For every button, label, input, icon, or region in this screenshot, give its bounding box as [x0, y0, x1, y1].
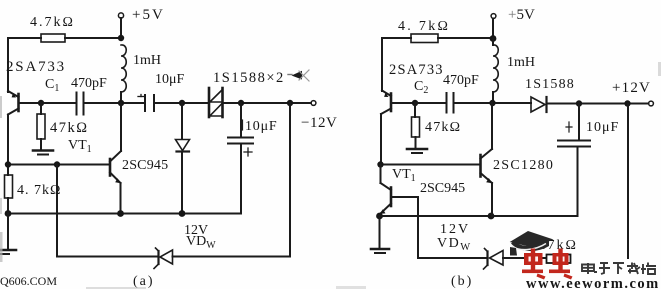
svg-text:1S1588: 1S1588 — [525, 77, 575, 92]
svg-text:C2: C2 — [414, 79, 428, 96]
svg-text:12V: 12V — [440, 222, 470, 237]
svg-text:+5V: +5V — [508, 7, 535, 23]
svg-text:+5V: +5V — [132, 7, 165, 23]
base wire 2SC1280 — [381, 164, 480, 166]
svg-text:−12V: −12V — [301, 115, 337, 131]
wire resistor to +5V node — [65, 37, 121, 39]
svg-text:C1: C1 — [45, 77, 59, 94]
svg-text:Q606.COM: Q606.COM — [0, 274, 57, 288]
svg-text:4. 7kΩ: 4. 7kΩ — [398, 19, 450, 34]
polarity + (a vertical cap) — [244, 148, 252, 156]
svg-text:(a): (a) — [133, 274, 155, 289]
terminal -12V — [311, 101, 316, 106]
main wire to C2 — [415, 102, 446, 104]
inductor L1 1mH (a) — [121, 45, 126, 92]
svg-text:+12V: +12V — [612, 80, 651, 96]
feedback vertical x57 (a) — [56, 165, 58, 257]
base branch down (b) — [417, 197, 419, 258]
zener VDW (b) — [484, 249, 504, 270]
red character chong #1 — [522, 249, 546, 280]
node junction top (a) — [118, 35, 124, 41]
node zener branch (a) — [287, 100, 293, 106]
resistor 4.7k (a left) — [7, 165, 9, 176]
svg-text:VT1: VT1 — [392, 167, 416, 184]
diode down branch (a) — [181, 103, 183, 139]
ground left (a) — [7, 214, 9, 250]
zener branch vertical (a) — [289, 103, 291, 257]
svg-text:www.eeworm.com: www.eeworm.com — [526, 276, 660, 289]
dual diode 1S1588x2 — [209, 88, 223, 117]
svg-text:VT1: VT1 — [68, 138, 92, 155]
svg-text:(b): (b) — [451, 274, 473, 289]
ground left (b) — [379, 216, 381, 248]
red character chong #2 — [549, 249, 573, 280]
svg-text:1S1588×2: 1S1588×2 — [213, 70, 285, 86]
zhan — [641, 263, 656, 275]
node zener branch (b) — [624, 100, 630, 106]
capacitor 10uF series (a) — [144, 95, 146, 111]
svg-text:4. 7kΩ: 4. 7kΩ — [17, 183, 61, 198]
main wire to C1 — [41, 102, 76, 104]
wire — [120, 18, 122, 38]
svg-text:10μF: 10μF — [245, 119, 278, 134]
graduation cap logo — [510, 231, 554, 256]
zener rail (b) — [418, 257, 488, 259]
svg-text:470pF: 470pF — [443, 73, 479, 88]
base wire 2SC945 (a) — [8, 164, 109, 166]
svg-text:47kΩ: 47kΩ — [50, 120, 89, 136]
inductor 1mH (b) — [493, 45, 498, 92]
wire top-left to resistor R1a — [8, 37, 41, 39]
transistor 2SA733 (a) PNP — [8, 91, 41, 115]
svg-text:47kΩ: 47kΩ — [425, 120, 461, 135]
polarity tick (b cap) — [566, 122, 572, 132]
arrow marker after 1S1588x2 label — [292, 71, 303, 80]
svg-text:VDW: VDW — [437, 236, 472, 253]
zener vertical (b) — [627, 104, 629, 259]
resistor 4.7k (a top) — [41, 34, 65, 42]
polarity tick — [138, 96, 144, 98]
left rail (b) — [381, 38, 383, 91]
polarity tick above — [242, 120, 244, 130]
capacitor C1 470pF (a) — [76, 93, 78, 115]
wire — [120, 92, 122, 103]
svg-text:VDW: VDW — [186, 234, 216, 251]
capacitor 10uF (b) — [578, 104, 580, 141]
svg-text:2SA733: 2SA733 — [6, 59, 66, 75]
node 10uF branch (b) — [576, 100, 582, 106]
terminal +5V (b) — [491, 14, 496, 19]
capacitor C2 470pF (b) — [446, 93, 448, 113]
svg-text:4.7kΩ: 4.7kΩ — [30, 15, 75, 30]
dian — [582, 263, 597, 274]
wire C1 to node — [85, 102, 145, 104]
wire to dual diode — [155, 102, 208, 104]
node 47k branch (b) — [412, 100, 418, 106]
svg-text:2SC1280: 2SC1280 — [493, 158, 554, 173]
left rail (a) — [7, 38, 9, 92]
zi — [599, 263, 610, 274]
47k resistor (a) — [40, 103, 42, 114]
transistor 2SA733 (b) PNP — [381, 91, 415, 115]
ground 47k (b) — [407, 148, 427, 151]
terminal +5V (a) — [118, 13, 123, 18]
scan smudges — [0, 62, 661, 289]
zener VDW (a) — [154, 248, 173, 269]
zener rail (a) — [57, 256, 158, 258]
node inductor bottom (a) — [118, 100, 124, 106]
diode 1S1588 (b) — [531, 97, 547, 112]
resistor 4.7k (b top) — [411, 34, 438, 43]
emitter node (b) — [376, 213, 383, 220]
capacitor 10uF vertical (a) — [240, 103, 242, 137]
svg-text:1mH: 1mH — [507, 55, 535, 70]
wire dual diode to output — [224, 102, 312, 104]
transistor 2SC945 (b) NPN mirrored — [380, 183, 418, 214]
svg-text:2SC945: 2SC945 — [122, 158, 168, 173]
zai — [627, 263, 640, 275]
resistor 4.7k (b bottom) over watermark — [547, 255, 571, 264]
node cap branch (a) — [238, 100, 244, 106]
svg-text:470pF: 470pF — [71, 76, 107, 91]
wire left to resistor (b top) — [382, 37, 411, 39]
svg-text:10μF: 10μF — [155, 72, 185, 87]
transistor 2SC945 (a) NPN — [110, 151, 121, 183]
node 47k branch (a) — [38, 100, 44, 106]
rail down to 945 (b) — [380, 165, 382, 184]
ground 47k (a) — [33, 149, 53, 152]
bottom rail (b) — [380, 215, 578, 217]
watermark text dianzi xiazaizhan (drawn strokes) — [582, 263, 656, 275]
svg-text:10μF: 10μF — [586, 120, 619, 135]
47k resistor (b) — [414, 103, 416, 117]
svg-text:2SC945: 2SC945 — [420, 181, 465, 196]
node diode-branch (a) — [179, 100, 185, 106]
transistor 2SC1280 NPN — [481, 149, 493, 183]
xia — [613, 263, 624, 274]
terminal +12V — [649, 101, 654, 106]
node inductor bottom (b) — [489, 100, 495, 106]
bottom rail (a) — [8, 213, 241, 215]
svg-text:1mH: 1mH — [133, 53, 161, 68]
svg-text:2SA733: 2SA733 — [389, 62, 444, 78]
left rail (a) lower — [7, 115, 9, 165]
